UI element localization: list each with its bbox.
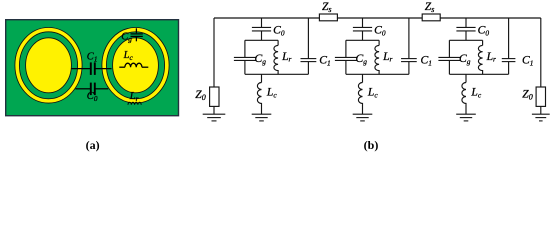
svg-text:Lr: Lr	[382, 50, 392, 64]
wire C0 to loop 3	[465, 31, 467, 40]
ground	[203, 114, 226, 121]
left inner disk	[26, 38, 72, 93]
svg-text:Zs: Zs	[425, 1, 435, 14]
loop bottom wire 1 to C1	[245, 73, 309, 75]
capacitor C1 after resonator 1 plates	[301, 59, 317, 62]
inductor Lr resonator 3	[482, 40, 484, 45]
impedance Z0 left box	[210, 87, 219, 106]
impedance Zs2 box	[422, 14, 440, 21]
capacitor C1 after resonator 3 stem	[508, 18, 510, 74]
left port wire	[213, 18, 215, 87]
capacitor C1 after resonator 2 plates	[401, 59, 417, 62]
wire C0 to loop 1	[261, 31, 263, 40]
inductor Lc resonator 1	[261, 74, 263, 82]
top bus wire	[214, 17, 541, 19]
green substrate board	[6, 20, 179, 116]
figure (a): microstrip dual-ring resonator layout	[6, 20, 179, 116]
inductor Lr meander (a)	[128, 102, 141, 105]
inductor Lr resonator 1	[277, 40, 279, 45]
capacitor C0 (a) plates	[91, 83, 95, 96]
svg-text:Z0: Z0	[522, 89, 532, 102]
right inner disk	[113, 38, 159, 93]
capacitor C0 resonator 2	[353, 27, 372, 31]
impedance Zs1 box	[319, 14, 337, 21]
svg-text:Cg: Cg	[356, 52, 368, 66]
left outer ring (yellow annulus)	[15, 28, 82, 104]
ground	[456, 114, 476, 121]
impedance Z0 right box	[536, 87, 545, 106]
wire C0 to loop 2	[362, 31, 364, 40]
loop left branch wires 3	[448, 40, 450, 74]
ground	[532, 114, 550, 121]
svg-text:(b): (b)	[364, 138, 379, 152]
svg-text:C1: C1	[522, 54, 533, 68]
capacitor C1 (a) plates	[91, 62, 95, 75]
loop left branch wires 2	[345, 40, 347, 74]
inductor Lc resonator 3	[465, 74, 467, 82]
capacitor C0 (a) wire	[76, 88, 109, 90]
loop top wire 3	[449, 39, 482, 41]
loop left branch wires 1	[244, 40, 246, 74]
capacitor Cg resonator 3	[438, 57, 460, 60]
right outer ring (yellow annulus)	[102, 28, 169, 104]
right port wire	[540, 18, 542, 87]
svg-text:Cg: Cg	[459, 52, 471, 66]
node resonator 2 top stem	[362, 18, 364, 27]
node resonator 1 top stem	[261, 18, 263, 27]
inductor Lc resonator 2	[362, 74, 364, 82]
inductor Lr resonator 2	[378, 40, 380, 45]
wire below right Z0	[540, 106, 542, 114]
node resonator 3 top stem	[465, 18, 467, 27]
svg-text:Zs: Zs	[322, 1, 332, 14]
loop top wire 1	[245, 39, 278, 41]
wire below left Z0	[213, 106, 215, 114]
capacitor C0 resonator 3	[456, 27, 475, 31]
figure (b): equivalent circuit schematic	[214, 18, 541, 87]
capacitor Cg (a) stem and plates	[131, 28, 143, 41]
capacitor C1 after resonator 3 plates	[502, 59, 516, 62]
svg-text:C0: C0	[478, 23, 490, 37]
capacitor C0 resonator 1	[252, 27, 271, 31]
svg-text:Lr: Lr	[486, 50, 496, 64]
inductor Lc (a)	[119, 63, 148, 67]
capacitor Cg resonator 1	[234, 57, 256, 60]
loop top wire 2	[346, 39, 379, 41]
svg-text:Lc: Lc	[367, 85, 378, 99]
ground	[252, 114, 272, 121]
svg-text:C0: C0	[374, 23, 386, 37]
capacitor C1 (a) wire	[71, 68, 111, 70]
capacitor C1 after resonator 1 stem	[307, 18, 309, 74]
capacitor C1 after resonator 2 stem	[408, 18, 410, 74]
svg-text:Lr: Lr	[281, 50, 291, 64]
svg-text:C0: C0	[273, 23, 285, 37]
svg-text:Cg: Cg	[255, 52, 267, 66]
loop bottom wire 2 to C1	[346, 73, 409, 75]
svg-text:C1: C1	[319, 54, 330, 68]
svg-text:(a): (a)	[86, 138, 100, 152]
svg-text:Z0: Z0	[195, 89, 205, 102]
capacitor Cg resonator 2	[335, 57, 357, 60]
svg-text:C1: C1	[421, 54, 432, 68]
loop bottom wire 3 to C1	[449, 73, 508, 75]
svg-text:Lc: Lc	[266, 85, 277, 99]
ground	[353, 114, 373, 121]
svg-text:Lc: Lc	[470, 85, 481, 99]
